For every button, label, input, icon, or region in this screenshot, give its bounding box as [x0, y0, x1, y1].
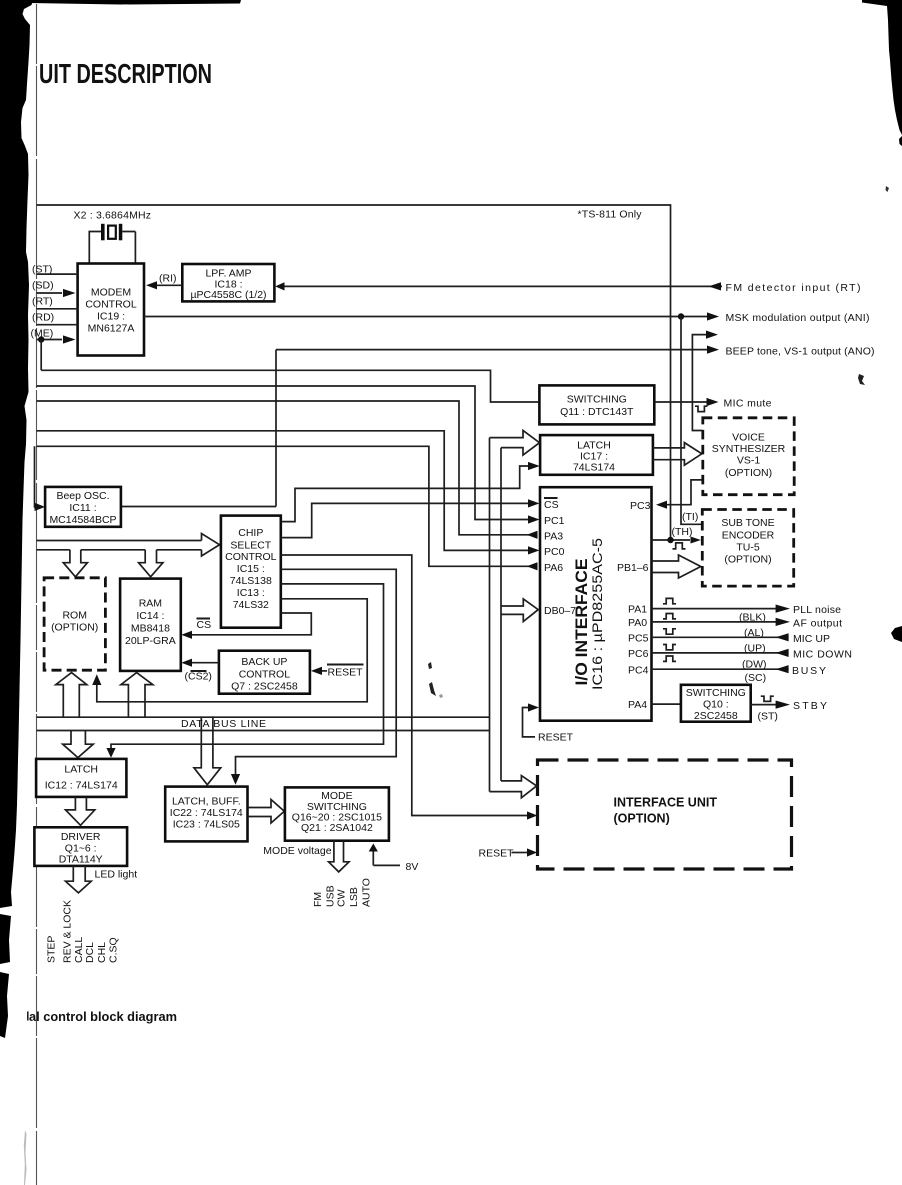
- svg-text:IC14 :: IC14 :: [136, 610, 164, 622]
- svg-text:(OPTION): (OPTION): [51, 622, 98, 634]
- svg-text:PC3: PC3: [630, 500, 651, 512]
- svg-text:74LS138: 74LS138: [230, 575, 272, 587]
- svg-text:Q7 : 2SC2458: Q7 : 2SC2458: [231, 681, 298, 693]
- svg-text:LED light: LED light: [95, 869, 138, 881]
- svg-text:PA1: PA1: [628, 604, 647, 616]
- svg-text:MODE voltage: MODE voltage: [263, 845, 331, 857]
- svg-text:MIC DOWN: MIC DOWN: [793, 649, 852, 661]
- svg-text:20LP-GRA: 20LP-GRA: [125, 635, 176, 647]
- svg-text:MSK modulation output (ANI): MSK modulation output (ANI): [726, 312, 870, 324]
- svg-text:PC5: PC5: [628, 633, 649, 645]
- svg-text:(UP): (UP): [744, 643, 766, 655]
- svg-text:DRIVER: DRIVER: [61, 831, 101, 843]
- svg-text:SUB TONE: SUB TONE: [721, 517, 774, 529]
- svg-text:FM: FM: [312, 892, 324, 907]
- svg-text:SELECT: SELECT: [230, 540, 271, 552]
- svg-text:ENCODER: ENCODER: [722, 530, 775, 542]
- svg-text:CONTROL: CONTROL: [239, 669, 290, 681]
- svg-text:RAM: RAM: [139, 598, 162, 610]
- svg-text:LATCH, BUFF.: LATCH, BUFF.: [172, 796, 241, 808]
- svg-text:TU-5: TU-5: [736, 542, 759, 554]
- svg-text:IC12 : 74LS174: IC12 : 74LS174: [45, 780, 118, 792]
- svg-text:VOICE: VOICE: [732, 432, 765, 444]
- svg-text:DTA114Y: DTA114Y: [59, 854, 103, 866]
- svg-text:Q10 :: Q10 :: [703, 699, 729, 711]
- svg-text:LSB: LSB: [348, 887, 360, 907]
- svg-text:I/O INTERFACE: I/O INTERFACE: [572, 559, 591, 686]
- svg-text:74LS174: 74LS174: [573, 462, 615, 474]
- svg-text:MIC mute: MIC mute: [724, 398, 772, 410]
- svg-text:µPC4558C (1/2): µPC4558C (1/2): [190, 289, 266, 301]
- svg-text:BACK UP: BACK UP: [241, 656, 287, 668]
- svg-text:C.SQ: C.SQ: [107, 937, 119, 963]
- svg-text:RESET: RESET: [479, 848, 515, 860]
- svg-text:PA3: PA3: [544, 530, 563, 542]
- svg-text:*TS-811 Only: *TS-811 Only: [578, 209, 643, 221]
- svg-text:SYNTHESIZER: SYNTHESIZER: [712, 443, 786, 455]
- svg-text:VS-1: VS-1: [737, 455, 761, 467]
- svg-text:IC22 : 74LS174: IC22 : 74LS174: [170, 807, 243, 819]
- svg-text:BEEP tone, VS-1 output (ANO): BEEP tone, VS-1 output (ANO): [726, 346, 875, 358]
- svg-text:Q21 : 2SA1042: Q21 : 2SA1042: [301, 822, 373, 834]
- svg-text:IC23 : 74LS05: IC23 : 74LS05: [173, 819, 240, 831]
- svg-text:AUTO: AUTO: [361, 878, 373, 907]
- svg-text:PC1: PC1: [544, 515, 565, 527]
- svg-text:STBY: STBY: [793, 700, 827, 712]
- svg-text:CONTROL: CONTROL: [225, 551, 276, 563]
- svg-text:(AL): (AL): [744, 627, 764, 639]
- svg-text:PA6: PA6: [544, 562, 563, 574]
- svg-text:IC16 : µPD8255AC-5: IC16 : µPD8255AC-5: [590, 538, 605, 690]
- svg-text:CONTROL: CONTROL: [85, 299, 136, 311]
- svg-text:(OPTION): (OPTION): [725, 467, 772, 479]
- svg-text:al control block diagram: al control block diagram: [29, 1009, 177, 1024]
- svg-text:X2 : 3.6864MHz: X2 : 3.6864MHz: [74, 210, 152, 222]
- svg-text:MB8418: MB8418: [131, 623, 170, 635]
- svg-text:(SD): (SD): [32, 280, 54, 292]
- svg-text:BUSY: BUSY: [792, 665, 826, 677]
- svg-text:UIT DESCRIPTION: UIT DESCRIPTION: [39, 58, 212, 89]
- svg-text:(DW): (DW): [742, 659, 767, 671]
- svg-text:LATCH: LATCH: [64, 764, 98, 776]
- svg-text:PC4: PC4: [628, 664, 649, 676]
- svg-text:PB1–6: PB1–6: [617, 562, 649, 574]
- svg-text:CHIP: CHIP: [238, 527, 263, 539]
- svg-text:AF output: AF output: [793, 618, 842, 630]
- svg-text:Beep OSC.: Beep OSC.: [56, 490, 109, 502]
- svg-text:(OPTION): (OPTION): [724, 554, 771, 566]
- svg-text:IC15 :: IC15 :: [237, 563, 265, 575]
- svg-text:Q11 : DTC143T: Q11 : DTC143T: [560, 406, 634, 418]
- svg-text:(RI): (RI): [159, 273, 177, 285]
- svg-text:(BLK): (BLK): [739, 612, 766, 624]
- svg-text:DATA BUS LINE: DATA BUS LINE: [181, 718, 266, 730]
- svg-text:IC13 :: IC13 :: [237, 587, 265, 599]
- svg-text:(CS2): (CS2): [185, 671, 212, 683]
- svg-text:REV & LOCK: REV & LOCK: [62, 900, 74, 963]
- svg-text:PA0: PA0: [628, 617, 647, 629]
- svg-text:IC11 :: IC11 :: [69, 502, 96, 514]
- svg-text:(RT): (RT): [32, 296, 53, 308]
- svg-text:INTERFACE UNIT: INTERFACE UNIT: [614, 796, 718, 810]
- svg-text:DB0–7: DB0–7: [544, 605, 576, 617]
- svg-text:STEP: STEP: [46, 936, 58, 963]
- svg-text:CS: CS: [197, 619, 212, 631]
- svg-text:PC6: PC6: [628, 648, 649, 660]
- svg-text:PA4: PA4: [628, 699, 647, 711]
- svg-text:CW: CW: [336, 889, 348, 907]
- svg-text:PC0: PC0: [544, 546, 565, 558]
- svg-text:SWITCHING: SWITCHING: [567, 394, 627, 406]
- svg-text:(TH): (TH): [672, 526, 693, 538]
- svg-text:(SC): (SC): [745, 672, 767, 684]
- svg-text:ROM: ROM: [62, 610, 87, 622]
- svg-text:RESET: RESET: [538, 732, 574, 744]
- svg-text:(TI): (TI): [682, 511, 698, 523]
- svg-text:74LS32: 74LS32: [233, 599, 269, 611]
- svg-text:FM detector input (RT): FM detector input (RT): [726, 282, 861, 294]
- svg-text:(RD): (RD): [32, 312, 54, 324]
- svg-text:(OPTION): (OPTION): [614, 812, 670, 826]
- svg-text:MODEM: MODEM: [91, 287, 131, 299]
- svg-text:MC14584BCP: MC14584BCP: [49, 514, 116, 526]
- svg-text:RESET: RESET: [328, 667, 364, 679]
- svg-text:(ST): (ST): [758, 711, 778, 723]
- svg-text:MN6127A: MN6127A: [88, 323, 135, 335]
- svg-text:SWITCHING: SWITCHING: [686, 687, 746, 699]
- svg-text:8V: 8V: [406, 861, 419, 873]
- svg-text:2SC2458: 2SC2458: [694, 710, 738, 722]
- svg-text:IC19 :: IC19 :: [97, 311, 125, 323]
- svg-text:CS: CS: [544, 499, 559, 511]
- svg-text:PLL noise: PLL noise: [793, 604, 841, 616]
- svg-text:MIC UP: MIC UP: [793, 633, 830, 645]
- svg-text:DCL: DCL: [84, 942, 96, 963]
